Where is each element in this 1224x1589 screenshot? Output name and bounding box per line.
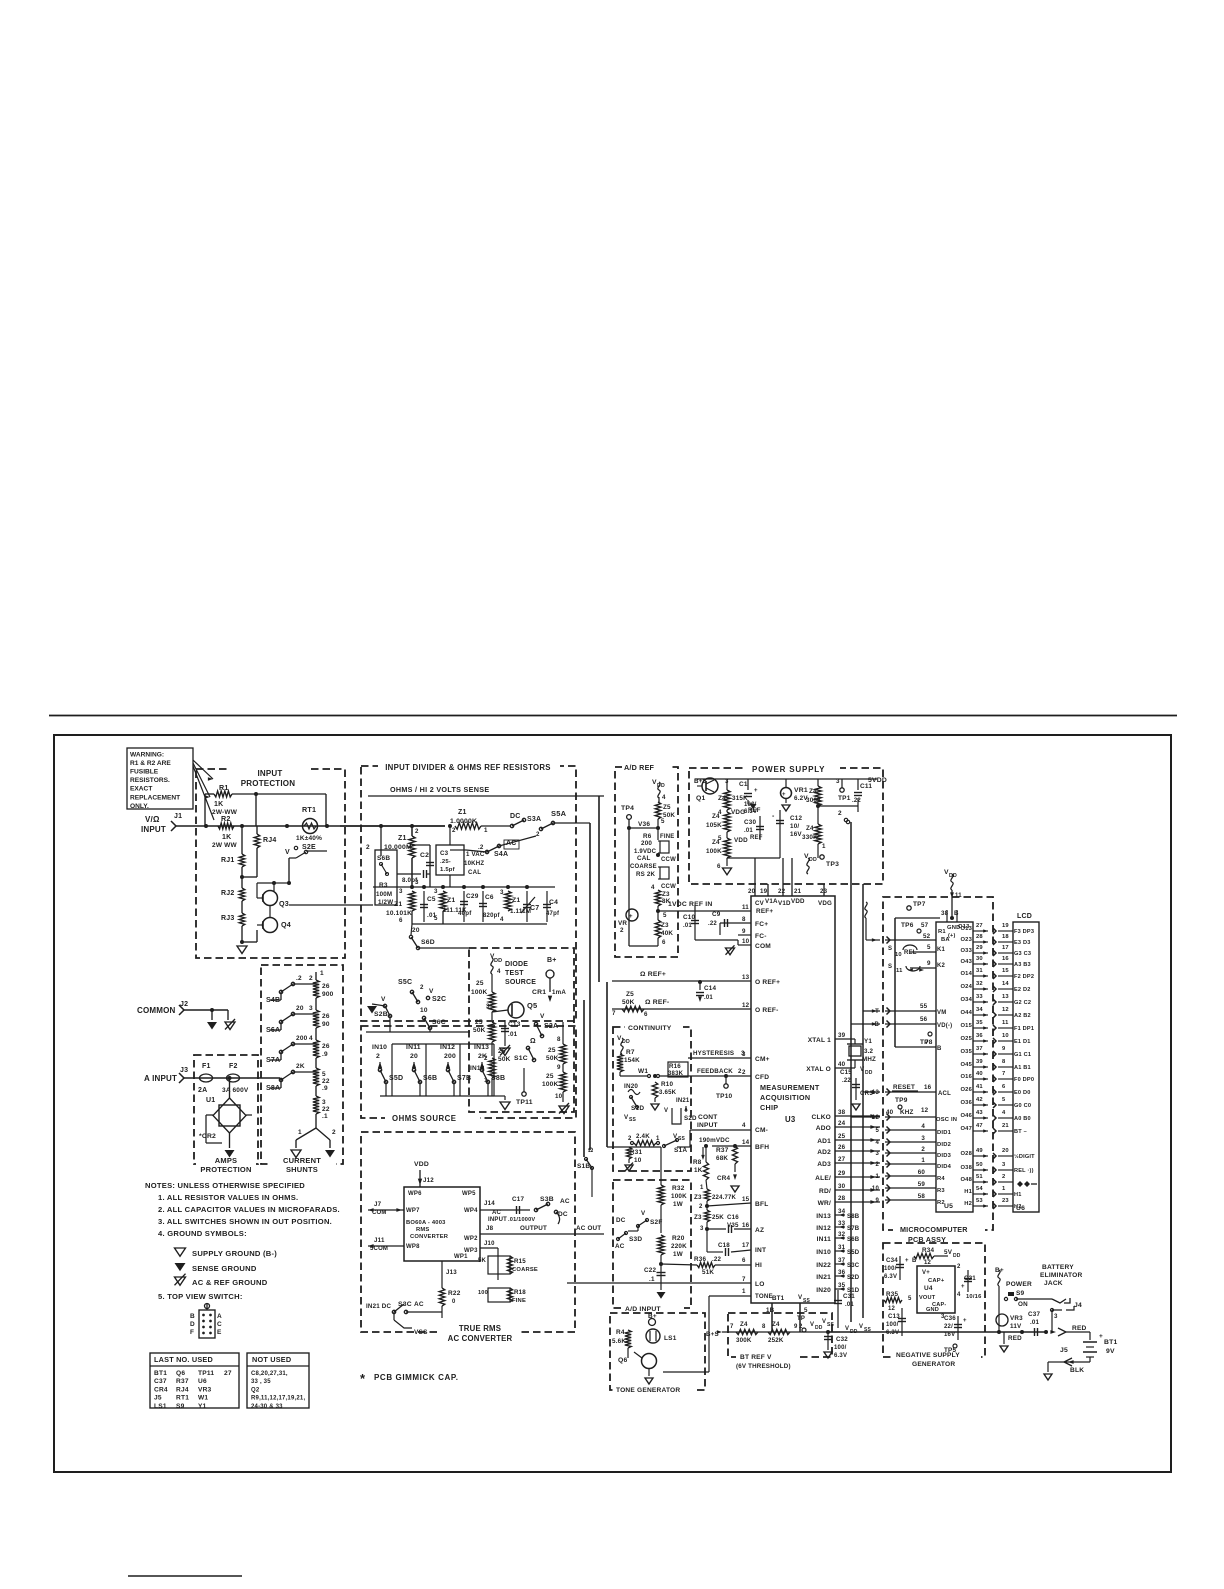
svg-text:1K: 1K: [214, 801, 223, 808]
svg-text:+: +: [1099, 1333, 1103, 1340]
svg-text:20: 20: [1002, 1148, 1009, 1154]
svg-text:Z3: Z3: [694, 1214, 702, 1221]
svg-text:DID3: DID3: [937, 1153, 952, 1159]
svg-text:R37: R37: [176, 1378, 189, 1385]
svg-text:OSC IN: OSC IN: [936, 1117, 957, 1123]
svg-text:33: 33: [976, 994, 983, 1000]
svg-text:S1A: S1A: [674, 1147, 687, 1154]
svg-text:25K: 25K: [712, 1214, 724, 1221]
svg-text:J8: J8: [486, 1225, 494, 1232]
svg-text:11: 11: [955, 893, 962, 899]
svg-text:DC: DC: [510, 813, 521, 820]
svg-text:50K: 50K: [546, 1055, 559, 1062]
svg-text:S2D: S2D: [847, 1275, 860, 1281]
svg-text:IN21: IN21: [676, 1098, 690, 1104]
svg-text:1: 1: [742, 1288, 746, 1295]
svg-text:BT1: BT1: [1104, 1339, 1117, 1346]
svg-text:3. ALL SWITCHES SHOWN IN OUT P: 3. ALL SWITCHES SHOWN IN OUT POSITION.: [158, 1217, 332, 1226]
svg-text:1mA: 1mA: [552, 989, 566, 996]
svg-text:39: 39: [838, 1032, 846, 1039]
svg-text:CAL: CAL: [468, 869, 481, 876]
svg-text:V: V: [859, 1324, 863, 1330]
svg-text:S6C: S6C: [432, 1019, 446, 1026]
svg-text:43: 43: [976, 1110, 983, 1116]
svg-text:CAP+: CAP+: [928, 1278, 945, 1284]
svg-text:O47: O47: [960, 1126, 972, 1132]
svg-text:F0 DP0: F0 DP0: [1014, 1077, 1034, 1083]
svg-text:AC CONVERTER: AC CONVERTER: [448, 1334, 513, 1343]
svg-text:2: 2: [1002, 1174, 1005, 1180]
svg-text:3: 3: [309, 1005, 313, 1012]
svg-text:J10: J10: [484, 1241, 495, 1247]
svg-text:32: 32: [976, 981, 983, 987]
svg-text:33 , 35: 33 , 35: [251, 1379, 271, 1385]
svg-text:9: 9: [557, 1064, 561, 1071]
svg-text:V36: V36: [638, 821, 650, 828]
svg-text:R3: R3: [937, 1188, 945, 1194]
svg-text:C12: C12: [790, 815, 802, 822]
svg-text:MICROCOMPUTER: MICROCOMPUTER: [900, 1225, 968, 1234]
svg-text:16V: 16V: [790, 831, 802, 838]
svg-text:IN11: IN11: [817, 1236, 831, 1243]
svg-text:Q2: Q2: [251, 1387, 260, 1393]
svg-text:25: 25: [838, 1133, 846, 1140]
svg-text:REF+: REF+: [756, 908, 773, 915]
svg-text:WR/: WR/: [818, 1200, 831, 1207]
svg-text:V: V: [822, 1319, 826, 1325]
svg-text:13: 13: [1002, 994, 1009, 1000]
svg-text:18: 18: [1002, 934, 1009, 940]
svg-text:23: 23: [1002, 1198, 1009, 1204]
svg-text:12: 12: [924, 1260, 932, 1266]
svg-text:2: 2: [452, 827, 456, 834]
svg-text:ONLY.: ONLY.: [130, 803, 149, 810]
svg-text:½DIGIT: ½DIGIT: [1014, 1153, 1035, 1160]
svg-text:HI: HI: [755, 1262, 762, 1269]
svg-text:7: 7: [1002, 1071, 1005, 1077]
svg-text:2: 2: [620, 927, 624, 934]
svg-text:11V: 11V: [1010, 1323, 1022, 1330]
svg-text:E0 D0: E0 D0: [1014, 1090, 1031, 1096]
svg-text:J7: J7: [374, 1201, 382, 1208]
svg-text:27: 27: [838, 1156, 846, 1163]
svg-text:.2: .2: [478, 844, 484, 851]
svg-text:.9: .9: [322, 1085, 328, 1092]
svg-text:Z1: Z1: [512, 897, 520, 904]
svg-text:AC & REF GROUND: AC & REF GROUND: [192, 1278, 268, 1287]
svg-text:26: 26: [322, 1013, 330, 1020]
svg-text:O34: O34: [960, 997, 972, 1003]
svg-text:5V: 5V: [944, 1249, 953, 1256]
svg-text:6: 6: [717, 863, 721, 870]
svg-text:26: 26: [838, 1144, 846, 1151]
svg-text:E1 D1: E1 D1: [1014, 1039, 1031, 1045]
svg-text:3A 600V: 3A 600V: [222, 1087, 249, 1094]
svg-text:1K: 1K: [222, 834, 231, 841]
svg-text:T: T: [875, 1009, 879, 1015]
svg-text:4: 4: [875, 1140, 879, 1146]
svg-text:11: 11: [896, 968, 903, 974]
svg-text:DC: DC: [616, 1217, 626, 1224]
svg-text:+: +: [961, 1284, 965, 1290]
svg-text:Z4: Z4: [806, 825, 814, 832]
svg-text:36: 36: [976, 1033, 983, 1039]
svg-text:C31: C31: [843, 1293, 855, 1300]
svg-text:+: +: [629, 914, 633, 920]
svg-text:53: 53: [976, 1198, 983, 1204]
svg-text:6.3V: 6.3V: [884, 1274, 897, 1280]
svg-text:ON: ON: [1018, 1301, 1028, 1308]
svg-text:2: 2: [838, 810, 842, 817]
svg-text:4: 4: [1002, 1110, 1006, 1116]
svg-text:R9,11,12,17,19,21,: R9,11,12,17,19,21,: [251, 1396, 305, 1402]
svg-text:TP1: TP1: [838, 795, 851, 802]
svg-text:35: 35: [838, 1282, 846, 1289]
svg-text:R4: R4: [937, 1176, 945, 1182]
svg-text:11: 11: [1002, 1020, 1009, 1026]
svg-text:Z5: Z5: [626, 991, 634, 998]
svg-text:820pf: 820pf: [483, 913, 500, 919]
svg-text:2: 2: [415, 828, 419, 835]
svg-text:20: 20: [296, 1005, 304, 1012]
svg-text:COM: COM: [755, 943, 771, 950]
svg-text:21: 21: [794, 888, 802, 895]
svg-text:22: 22: [322, 1078, 330, 1085]
svg-text:57: 57: [921, 922, 929, 929]
svg-text:IN22: IN22: [816, 1262, 831, 1269]
svg-text:R10: R10: [661, 1081, 673, 1088]
svg-text:16: 16: [924, 1084, 932, 1091]
svg-text:2: 2: [309, 975, 313, 982]
svg-text:O23: O23: [960, 937, 972, 943]
svg-text:O24: O24: [960, 984, 972, 990]
svg-text:2. ALL CAPACITOR VALUES IN MIC: 2. ALL CAPACITOR VALUES IN MICROFARADS.: [158, 1205, 340, 1214]
svg-text:V: V: [285, 849, 290, 856]
svg-text:DD: DD: [815, 1325, 823, 1331]
svg-text:AZ: AZ: [755, 1227, 764, 1234]
svg-text:900: 900: [322, 991, 334, 998]
svg-text:200: 200: [444, 1053, 456, 1060]
svg-text:16V: 16V: [944, 1332, 955, 1338]
svg-text:G0 C0: G0 C0: [1014, 1103, 1031, 1109]
svg-text:8: 8: [557, 1036, 561, 1043]
svg-text:S8B: S8B: [847, 1214, 860, 1220]
svg-text:9: 9: [794, 1324, 798, 1330]
svg-text:3: 3: [700, 1226, 704, 1232]
svg-text:RJ1: RJ1: [221, 857, 234, 864]
svg-text:C9: C9: [712, 911, 721, 918]
svg-text:C8,20,27,31,: C8,20,27,31,: [251, 1371, 288, 1377]
svg-text:F1: F1: [202, 1063, 211, 1070]
svg-text:R8: R8: [693, 1159, 702, 1166]
svg-text:4: 4: [309, 1035, 313, 1042]
svg-text:O26: O26: [960, 1087, 972, 1093]
svg-text:DIODE: DIODE: [505, 961, 528, 968]
svg-text:Ω REF-: Ω REF-: [645, 999, 669, 1006]
svg-text:38: 38: [838, 1109, 846, 1116]
svg-text:3: 3: [322, 1099, 326, 1106]
svg-text:220K: 220K: [671, 1243, 687, 1250]
svg-text:SS: SS: [678, 1136, 686, 1142]
svg-text:RJ3: RJ3: [221, 915, 234, 922]
svg-text:4: 4: [742, 1122, 746, 1129]
svg-text:6.3V: 6.3V: [834, 1353, 847, 1359]
svg-text:1.5pf: 1.5pf: [440, 867, 455, 873]
svg-text:VDD: VDD: [734, 837, 748, 844]
svg-text:TP3: TP3: [826, 861, 839, 868]
svg-text:V: V: [641, 1210, 646, 1217]
svg-text:GENERATOR: GENERATOR: [912, 1361, 955, 1368]
svg-text:Z4: Z4: [712, 813, 720, 820]
svg-text:16: 16: [742, 1222, 750, 1229]
svg-text:36: 36: [838, 1269, 846, 1276]
svg-text:S5D: S5D: [389, 1075, 403, 1082]
svg-text:Z1: Z1: [458, 809, 467, 816]
svg-text:O13: O13: [960, 926, 972, 932]
svg-text:U6: U6: [1016, 1205, 1025, 1212]
svg-text:C18: C18: [718, 1242, 730, 1249]
svg-text:15: 15: [742, 1196, 750, 1203]
svg-text:12: 12: [921, 1107, 929, 1114]
svg-text:COARSE: COARSE: [630, 864, 657, 870]
svg-text:B: B: [874, 1022, 879, 1028]
svg-text:Z1: Z1: [394, 901, 402, 908]
svg-text:SUPPLY GROUND (B-): SUPPLY GROUND (B-): [192, 1249, 277, 1258]
svg-text:5: 5: [804, 1307, 808, 1314]
svg-text:C34: C34: [886, 1257, 898, 1264]
svg-text:.9: .9: [322, 1051, 328, 1058]
svg-text:U4: U4: [924, 1285, 933, 1292]
svg-text:Z3: Z3: [662, 891, 670, 898]
svg-text:10/: 10/: [790, 823, 799, 830]
svg-text:S9: S9: [176, 1403, 185, 1410]
svg-text:S3A: S3A: [527, 816, 541, 823]
svg-text:31: 31: [838, 1244, 846, 1251]
svg-text:59: 59: [918, 1181, 926, 1188]
svg-text:V+: V+: [922, 1270, 930, 1276]
svg-text:VR1: VR1: [794, 787, 808, 794]
svg-text:1: 1: [1002, 1186, 1006, 1192]
svg-text:WP1: WP1: [454, 1254, 468, 1260]
svg-text:Q1: Q1: [696, 795, 705, 802]
svg-text:B+: B+: [547, 957, 557, 964]
svg-text:C16: C16: [727, 1214, 739, 1221]
svg-text:Z5: Z5: [663, 804, 671, 811]
svg-text:VDD: VDD: [414, 1161, 429, 1168]
svg-text:20: 20: [410, 1053, 418, 1060]
svg-text:5. TOP VIEW SWITCH:: 5. TOP VIEW SWITCH:: [158, 1292, 243, 1301]
svg-text:7: 7: [925, 1039, 929, 1046]
svg-text:7: 7: [730, 1324, 734, 1330]
svg-text:CFD: CFD: [755, 1074, 769, 1081]
svg-text:COARSE: COARSE: [512, 1267, 538, 1273]
svg-text:51: 51: [976, 1174, 983, 1180]
svg-text:EXACT: EXACT: [130, 786, 152, 793]
svg-text:S7B: S7B: [847, 1226, 860, 1232]
svg-text:Z3: Z3: [661, 922, 669, 929]
svg-text:37: 37: [838, 1257, 846, 1264]
svg-text:35: 35: [976, 1020, 983, 1026]
svg-text:J3: J3: [180, 1067, 188, 1074]
svg-text:+: +: [782, 792, 786, 798]
svg-text:2: 2: [420, 984, 424, 991]
svg-text:LCD: LCD: [1017, 913, 1032, 920]
svg-text:CV: CV: [755, 900, 765, 907]
svg-text:19: 19: [1002, 923, 1009, 929]
svg-text:1W: 1W: [673, 1251, 683, 1258]
svg-text:TRUE RMS: TRUE RMS: [459, 1324, 501, 1333]
svg-text:CCW: CCW: [661, 857, 676, 863]
svg-text:41: 41: [976, 1084, 983, 1090]
svg-text:31: 31: [976, 968, 983, 974]
svg-text:9V: 9V: [1106, 1348, 1115, 1355]
svg-text:S5D: S5D: [847, 1250, 860, 1256]
svg-text:22/: 22/: [944, 1324, 953, 1330]
svg-text:224.77K: 224.77K: [712, 1195, 737, 1201]
svg-text:(+): (+): [948, 933, 955, 939]
svg-text:XTAL 1: XTAL 1: [808, 1037, 831, 1044]
svg-text:5: 5: [661, 818, 665, 825]
svg-text:B: B: [190, 1313, 195, 1320]
svg-text:*: *: [360, 1371, 366, 1386]
svg-text:C4: C4: [549, 899, 558, 906]
svg-text:S: S: [888, 964, 892, 970]
svg-text:1. ALL RESISTOR VALUES IN OHMS: 1. ALL RESISTOR VALUES IN OHMS.: [158, 1193, 298, 1202]
svg-text:J12: J12: [423, 1177, 434, 1184]
svg-text:1K: 1K: [694, 1167, 703, 1174]
svg-text:10: 10: [555, 1093, 563, 1100]
svg-text:H1: H1: [964, 1189, 972, 1195]
svg-text:8: 8: [742, 916, 746, 923]
svg-text:E2 D2: E2 D2: [1014, 987, 1031, 993]
svg-text:B: B: [937, 1046, 942, 1052]
svg-text:POWER: POWER: [1006, 1281, 1032, 1288]
svg-text:IN21 DC: IN21 DC: [366, 1303, 391, 1310]
svg-text:TEST: TEST: [505, 970, 524, 977]
svg-text:RS 2K: RS 2K: [636, 871, 656, 878]
svg-text:SHUNTS: SHUNTS: [286, 1165, 318, 1174]
svg-text:28: 28: [838, 1195, 846, 1202]
svg-text:D: D: [190, 1321, 195, 1328]
svg-text:10: 10: [634, 1157, 642, 1164]
svg-text:9: 9: [1002, 1046, 1006, 1052]
svg-text:32: 32: [838, 1231, 846, 1238]
svg-text:C13: C13: [508, 1021, 521, 1028]
svg-text:CR1: CR1: [532, 989, 546, 996]
svg-text:50K: 50K: [663, 812, 675, 819]
svg-text:5: 5: [875, 1128, 879, 1134]
svg-text:R34: R34: [922, 1247, 934, 1254]
svg-text:IN11: IN11: [406, 1044, 421, 1051]
svg-text:S6B: S6B: [423, 1075, 437, 1082]
svg-text:C2: C2: [420, 852, 429, 859]
svg-text:AMPS: AMPS: [215, 1156, 237, 1165]
svg-text:RJ4: RJ4: [263, 837, 276, 844]
svg-text:CURRENT: CURRENT: [283, 1156, 321, 1165]
svg-text:R1: R1: [938, 929, 946, 935]
svg-text:V1A: V1A: [765, 898, 778, 905]
svg-text:R1: R1: [219, 783, 229, 792]
svg-text:3: 3: [836, 778, 840, 785]
svg-text:105K: 105K: [706, 822, 722, 829]
svg-text:J11: J11: [374, 1237, 385, 1244]
svg-text:2: 2: [484, 1055, 488, 1062]
svg-text:WARNING:: WARNING:: [130, 752, 164, 759]
svg-text:4: 4: [662, 794, 666, 801]
svg-text:VR3: VR3: [198, 1386, 212, 1393]
svg-text:6: 6: [742, 1257, 746, 1264]
svg-text:C14: C14: [704, 985, 716, 992]
svg-text:4: 4: [921, 1123, 925, 1130]
svg-text:30: 30: [838, 1183, 846, 1190]
svg-text:BLK: BLK: [1070, 1367, 1084, 1374]
svg-text:DID1: DID1: [937, 1130, 952, 1136]
svg-text:.22: .22: [712, 1256, 722, 1263]
svg-text:FINE: FINE: [660, 834, 674, 840]
svg-text:IN10: IN10: [372, 1044, 387, 1051]
svg-text:DD: DD: [953, 1253, 961, 1259]
svg-text:Ω REF+: Ω REF+: [640, 971, 666, 978]
svg-text:8: 8: [762, 1324, 766, 1330]
svg-text:9: 9: [875, 1198, 879, 1204]
svg-text:17: 17: [1002, 945, 1009, 951]
svg-text:BT1: BT1: [154, 1370, 167, 1377]
svg-text:16: 16: [1002, 956, 1009, 962]
svg-text:34: 34: [838, 1208, 846, 1215]
svg-text:1: 1: [320, 970, 324, 977]
svg-text:3: 3: [500, 889, 504, 896]
svg-text:40K: 40K: [661, 930, 673, 937]
svg-text:A1 B1: A1 B1: [1014, 1065, 1031, 1071]
svg-text:F1 DP1: F1 DP1: [1014, 1026, 1034, 1032]
svg-text:CAL: CAL: [637, 855, 651, 862]
svg-text:REL ·)): REL ·)): [1014, 1168, 1034, 1174]
svg-text:RMS: RMS: [416, 1227, 429, 1233]
svg-text:.22: .22: [842, 1078, 851, 1084]
svg-text:100K: 100K: [471, 989, 487, 996]
svg-text:Z4: Z4: [740, 1321, 748, 1328]
svg-text:F3 DP3: F3 DP3: [1014, 929, 1034, 935]
svg-text:3.65K: 3.65K: [659, 1089, 677, 1096]
svg-text:+: +: [754, 788, 758, 794]
svg-text:9: 9: [927, 960, 931, 967]
svg-text:2K: 2K: [296, 1063, 305, 1070]
svg-text:H1: H1: [1014, 1192, 1022, 1198]
svg-text:.01/1000V: .01/1000V: [508, 1217, 535, 1223]
svg-text:R32: R32: [672, 1185, 685, 1192]
svg-text:27: 27: [976, 923, 983, 929]
svg-text:4. GROUND SYMBOLS:: 4. GROUND SYMBOLS:: [158, 1229, 247, 1238]
svg-text:S3D: S3D: [629, 1236, 642, 1243]
svg-text:ADO: ADO: [816, 1125, 831, 1132]
svg-text:VDG: VDG: [818, 900, 832, 907]
svg-text:PCB ASSY: PCB ASSY: [908, 1235, 946, 1244]
svg-text:TP5: TP5: [944, 1347, 956, 1354]
svg-text:V/Ω: V/Ω: [145, 815, 160, 824]
svg-text:.01: .01: [744, 828, 753, 834]
svg-text:Ω: Ω: [530, 1038, 536, 1045]
svg-text:DD: DD: [865, 1070, 873, 1076]
svg-text:S1C: S1C: [514, 1055, 528, 1062]
svg-text:26: 26: [322, 1043, 330, 1050]
svg-text:IN13: IN13: [816, 1213, 831, 1220]
svg-text:1W: 1W: [673, 1201, 683, 1208]
svg-text:AD3: AD3: [817, 1161, 831, 1168]
svg-text:C15: C15: [840, 1069, 852, 1076]
svg-text:S1B: S1B: [577, 1163, 590, 1170]
svg-text:S3C: S3C: [847, 1263, 860, 1269]
svg-text:TP7: TP7: [913, 901, 926, 908]
